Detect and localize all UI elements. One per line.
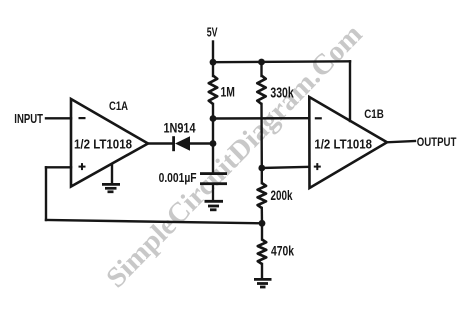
svg-text:200k: 200k bbox=[271, 188, 293, 203]
junction node: 1M bottom / C1B minus bbox=[210, 115, 217, 122]
junction node: top rail / 330k bbox=[258, 59, 265, 66]
ground below 470k bbox=[254, 279, 272, 287]
op-amp C1B plus sign bbox=[314, 163, 321, 170]
svg-text:470k: 470k bbox=[271, 244, 294, 259]
svg-text:1/2 LT1018: 1/2 LT1018 bbox=[74, 136, 132, 151]
wire 200k bottom lead to node B bbox=[261, 208, 264, 223]
svg-text:0.001µF: 0.001µF bbox=[159, 170, 197, 185]
svg-text:1M: 1M bbox=[221, 85, 235, 100]
junction node: top rail / 1M bbox=[210, 59, 217, 66]
wire 330k top lead bbox=[260, 62, 262, 76]
capacitor C 0.001uF plates bbox=[200, 172, 227, 175]
ground below capacitor bbox=[205, 201, 224, 210]
wire node to diode node bbox=[212, 119, 214, 144]
svg-text:SimpleCircuitDiagram.Com: SimpleCircuitDiagram.Com bbox=[101, 18, 369, 294]
capacitor lower lead bbox=[212, 185, 214, 201]
resistor R 1M bbox=[209, 76, 217, 105]
svg-text:1/2 LT1018: 1/2 LT1018 bbox=[314, 136, 372, 151]
wire 470k top lead bbox=[261, 223, 263, 239]
diode D1 1N914 cathode bar bbox=[172, 136, 175, 151]
wire 470k bottom lead to ground bbox=[261, 264, 263, 279]
svg-text:INPUT: INPUT bbox=[14, 111, 43, 126]
wire INPUT lead bbox=[46, 117, 71, 119]
resistor R 200k bbox=[258, 183, 266, 208]
svg-text:C1A: C1A bbox=[109, 99, 128, 113]
wire diode node to capacitor bbox=[212, 144, 214, 173]
ground below C1A bbox=[102, 164, 120, 192]
svg-text:330k: 330k bbox=[270, 86, 294, 102]
wire C1A output to diode bbox=[148, 142, 173, 144]
wire 200k top lead bbox=[261, 168, 263, 183]
resistor R 330k bbox=[257, 76, 265, 105]
junction node A: 330k/200k/C1B plus bbox=[258, 165, 265, 172]
wire C1B inverting input bbox=[213, 117, 309, 120]
wire feedback vertical to C1B bbox=[349, 61, 351, 121]
diode D1 1N914 arrow bbox=[175, 136, 190, 150]
wire bottom feedback bbox=[46, 220, 262, 223]
op-amp C1A minus sign bbox=[79, 117, 86, 119]
resistor R 470k bbox=[258, 240, 266, 265]
wire 1M bottom lead to node bbox=[212, 104, 214, 119]
junction node B: 200k/470k/feedback bbox=[259, 220, 266, 227]
junction node: diode / capacitor bbox=[210, 140, 217, 147]
op-amp C1A bbox=[71, 99, 148, 187]
op-amp C1B minus sign bbox=[315, 117, 322, 119]
wire C1B noninverting input bbox=[262, 167, 309, 168]
wire top rail bbox=[213, 60, 350, 63]
watermark SimpleCircuitDiagram.Com bbox=[101, 18, 369, 294]
svg-text:OUTPUT: OUTPUT bbox=[417, 135, 457, 149]
op-amp C1A plus sign bbox=[79, 163, 86, 170]
wire C1A noninverting input bbox=[46, 166, 71, 168]
wire left feedback vertical bbox=[45, 167, 47, 220]
svg-text:C1B: C1B bbox=[364, 107, 384, 121]
wire 5V stub bbox=[212, 42, 214, 63]
op-amp C1B bbox=[309, 97, 387, 188]
wire diode to node bbox=[190, 142, 214, 144]
svg-text:1N914: 1N914 bbox=[164, 121, 196, 136]
wire OUTPUT lead bbox=[387, 141, 415, 142]
wire 1M top lead bbox=[212, 62, 214, 76]
wire 330k bottom lead crossing to node A bbox=[260, 104, 263, 168]
svg-text:5V: 5V bbox=[207, 24, 218, 39]
